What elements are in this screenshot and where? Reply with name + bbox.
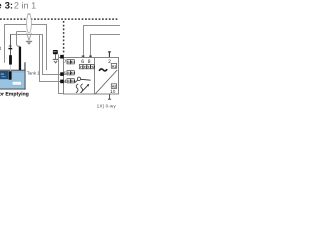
- probe A submerged rod: [9, 71, 12, 79]
- tank bottom: [0, 88, 26, 89]
- tank water: [0, 71, 24, 89]
- svg-text:C2: C2: [71, 71, 75, 75]
- svg-text:2 in 1: 2 in 1: [14, 0, 36, 10]
- terminal 5 pad: [60, 72, 64, 76]
- terminal 2 stub: [108, 52, 110, 57]
- probe A upper rod: [9, 55, 12, 64]
- A1 box: [111, 63, 116, 68]
- ground symbol: [53, 54, 59, 63]
- svg-text:3:: 3:: [5, 0, 13, 10]
- water surface line: [0, 69, 26, 72]
- terminal 5 code boxes: [67, 71, 74, 75]
- pump wire to terminal 7: [59, 54, 62, 57]
- terminal 4 code boxes: [67, 79, 74, 83]
- svg-text:1X] 0-wy: 1X] 0-wy: [97, 103, 117, 108]
- svg-text:A2: A2: [112, 85, 116, 89]
- wire rail L1 top left: [5, 25, 47, 71]
- probe B rod: [19, 47, 21, 71]
- terminal 6 tick: [82, 56, 85, 57]
- svg-text:e: e: [0, 0, 2, 10]
- terminal 4 pad: [60, 80, 64, 84]
- svg-text:Tank 1: Tank 1: [27, 71, 40, 76]
- terminal 7 pad: [60, 55, 64, 59]
- water light slab: [12, 81, 22, 85]
- terminal 8 tick: [89, 56, 92, 57]
- terminal 8 code boxes: [87, 65, 94, 69]
- wire to terminal 4: [40, 35, 61, 82]
- terminal 7 code boxes: [67, 60, 74, 64]
- inlet arrow head: [27, 42, 32, 44]
- relay divider: [94, 58, 96, 95]
- svg-text:4: 4: [64, 79, 67, 85]
- tank right wall: [24, 62, 25, 89]
- svg-text:5: 5: [64, 71, 67, 77]
- wire pump down to box bottom corner: [59, 58, 64, 94]
- inlet arrow bar: [26, 41, 32, 42]
- water lighter band: [0, 71, 24, 73]
- inlet pipe oval: [27, 14, 32, 33]
- dotted enclosure top line: [0, 18, 119, 20]
- terminal 1 stub: [109, 94, 111, 99]
- wire rail L3 to probe A and terminals 5,4: [11, 35, 61, 75]
- wire rail R1: [84, 26, 121, 58]
- dotted enclosure right-of-tank vertical line: [63, 21, 65, 55]
- wire rail L2 to probe B: [17, 32, 27, 47]
- svg-text:2: 2: [108, 59, 111, 65]
- probe A lower wire: [9, 65, 11, 71]
- AC supply tilde: [99, 69, 107, 71]
- probe squiggle symbol: [76, 84, 89, 93]
- pump: [53, 50, 58, 54]
- svg-text:A1: A1: [112, 64, 116, 68]
- inlet pipe tick: [28, 13, 31, 15]
- svg-text:C1: C1: [71, 60, 75, 64]
- relay box: [64, 58, 119, 95]
- water dark band: [0, 71, 8, 79]
- probe A adjuster bars: [9, 45, 12, 48]
- svg-text:7: 7: [64, 59, 67, 65]
- A2 box: [111, 84, 116, 89]
- float switch symbol: [75, 77, 91, 83]
- svg-text:or Emptying: or Emptying: [0, 91, 29, 97]
- inlet funnel V: [27, 33, 32, 40]
- probe A wire: [10, 35, 12, 57]
- terminal 6 code boxes: [79, 65, 86, 69]
- relay diagonal contact: [95, 70, 117, 94]
- svg-text:3: 3: [0, 46, 1, 52]
- svg-text:0: 0: [113, 89, 116, 94]
- wire rail R2: [91, 35, 121, 58]
- svg-text:Y2: Y2: [91, 65, 95, 69]
